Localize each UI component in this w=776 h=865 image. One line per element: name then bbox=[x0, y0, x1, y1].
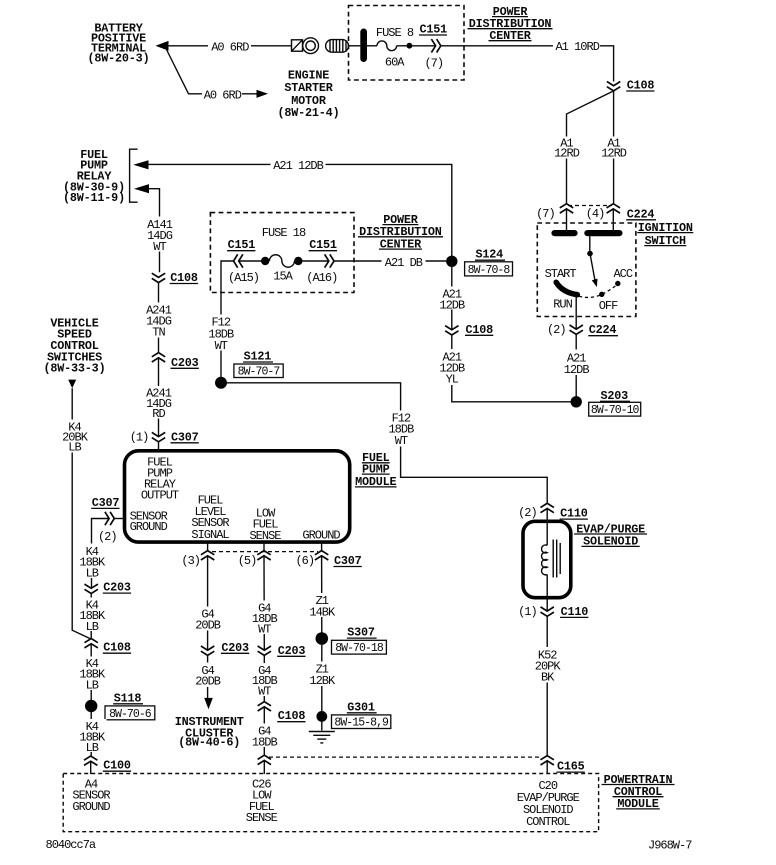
ground G301 reference box 8W-15-8,9 bbox=[332, 715, 391, 730]
connector C100 chevron bbox=[84, 756, 97, 765]
splice S121 label bbox=[243, 350, 273, 364]
wire coil to C110 cavity 1 bbox=[546, 575, 548, 612]
svg-text:12RD: 12RD bbox=[554, 147, 580, 161]
connector C224 label (cavity 2) bbox=[588, 323, 618, 337]
splice S121 dot bbox=[215, 377, 227, 389]
wire A0 6RD to starter motor bbox=[168, 45, 292, 47]
wire label G4 18DB bbox=[250, 724, 280, 748]
wire label K4 18BK LB (3) bbox=[78, 657, 107, 691]
wire label A0 6RD (lower) bbox=[202, 88, 242, 101]
ignition wiper arm with arrowhead bbox=[590, 254, 598, 288]
node FUEL PUMP RELAY label bbox=[63, 148, 125, 205]
svg-text:(7): (7) bbox=[536, 207, 555, 221]
pin C26 LOW FUEL SENSE label bbox=[246, 777, 278, 825]
svg-text:(4): (4) bbox=[586, 207, 605, 221]
svg-text:(A15): (A15) bbox=[228, 271, 259, 285]
svg-text:J968W-7: J968W-7 bbox=[648, 839, 692, 853]
wire label A1 12RD (right) bbox=[599, 137, 628, 159]
connector C307 label (bottom row) bbox=[334, 554, 362, 568]
connector C108 chevron (right column) bbox=[445, 326, 458, 335]
wire A21 12DB from S124 to fuel pump relay bbox=[148, 164, 452, 256]
connector C108 label (right column) bbox=[465, 323, 493, 337]
pin C20 EVAP/PURGE SOLENOID CONTROL label bbox=[517, 779, 580, 829]
fuse 18 element bbox=[269, 255, 294, 268]
svg-text:A21 12DB: A21 12DB bbox=[273, 159, 323, 173]
wire label F12 18DB WT (right) bbox=[386, 411, 417, 447]
wire label K4 18BK LB (2) bbox=[78, 598, 107, 632]
node EVAP/PURGE SOLENOID label bbox=[574, 522, 647, 548]
wire A241 14DG RD bbox=[158, 358, 160, 437]
connector C224 cavity 2 chevron bbox=[570, 325, 583, 334]
connector C307 cavity 5 chevron bbox=[257, 551, 270, 560]
svg-text:(8W-20-3): (8W-20-3) bbox=[88, 51, 150, 65]
svg-text:12DB: 12DB bbox=[439, 298, 465, 312]
wire G4 18DB WT lower bbox=[263, 655, 265, 701]
svg-text:(7): (7) bbox=[424, 56, 443, 70]
wire C224-4 to run contact bbox=[612, 209, 614, 231]
ignition OFF contact dot bbox=[599, 292, 604, 297]
wire G4 18DB to PCM bbox=[263, 707, 265, 755]
svg-text:8W-70-10: 8W-70-10 bbox=[591, 404, 640, 417]
connector C165 label bbox=[557, 760, 585, 774]
wire A1 12RD right branch bbox=[613, 91, 615, 204]
splice S203 dot bbox=[571, 396, 582, 407]
connector C203 label (instrument cluster) bbox=[221, 641, 249, 655]
wire C224-7 to start contact bbox=[566, 209, 568, 231]
svg-text:LB: LB bbox=[68, 440, 81, 454]
pin SENSOR GROUND label bbox=[130, 510, 168, 534]
wire label A21 12DB bbox=[437, 287, 468, 310]
connector C151 label (A16) bbox=[309, 238, 337, 252]
wire low fuel sense stub bbox=[263, 542, 265, 551]
wire contact bar to pivot bbox=[589, 236, 591, 253]
svg-text:12RD: 12RD bbox=[601, 147, 627, 161]
fuse 18 left terminal dot bbox=[261, 257, 269, 265]
wire label A241 14DG RD bbox=[143, 386, 174, 419]
wire G4 20DB upper bbox=[207, 556, 209, 650]
wire fuse 18 to A16 chevron bbox=[303, 260, 329, 262]
wire A141 14DG WT bbox=[148, 189, 160, 273]
svg-text:18DB: 18DB bbox=[252, 735, 278, 749]
svg-text:(8W-11-9): (8W-11-9) bbox=[63, 191, 125, 205]
splice S307 label bbox=[347, 626, 377, 640]
wire G4 20DB lower with arrow bbox=[207, 655, 209, 698]
svg-text:OFF: OFF bbox=[599, 299, 618, 313]
wire F12 18DB WT label (above S121) bbox=[206, 315, 237, 351]
vehicle speed control arrow bbox=[68, 380, 76, 389]
connector C307 cavity 2 chevron bbox=[105, 512, 114, 525]
svg-text:(8W-33-3): (8W-33-3) bbox=[44, 362, 106, 376]
svg-text:(5): (5) bbox=[238, 554, 257, 568]
wire RUN output to C224-2 bbox=[575, 295, 577, 329]
connector C203 chevron (instrument cluster) bbox=[201, 646, 214, 655]
wire sensor ground corner down bbox=[92, 519, 110, 589]
svg-text:GROUND: GROUND bbox=[130, 520, 168, 534]
svg-text:(6): (6) bbox=[295, 554, 314, 568]
node IGNITION SWITCH label bbox=[637, 221, 693, 248]
svg-text:20DB: 20DB bbox=[195, 618, 221, 632]
wire K4 18BK LB to S118 and C100 bbox=[90, 644, 92, 756]
connector C110 cavity 1 chevron bbox=[541, 607, 554, 616]
svg-text:20DB: 20DB bbox=[195, 675, 221, 689]
connector C203 chevron (left column) bbox=[152, 353, 165, 362]
splice S124 dot bbox=[446, 256, 457, 267]
ground G301 label bbox=[347, 700, 377, 714]
fuel pump module box bbox=[125, 451, 350, 542]
svg-text:8W-70-8: 8W-70-8 bbox=[468, 264, 511, 277]
power distribution center box (top) bbox=[349, 6, 465, 81]
node ENGINE STARTER MOTOR label bbox=[278, 68, 340, 119]
wire label A21 DB bbox=[382, 255, 426, 268]
wire label K4 20BK LB bbox=[58, 420, 87, 453]
wire fuel level sensor signal stub bbox=[207, 542, 209, 551]
solenoid core lines bbox=[553, 540, 560, 578]
starter cable coil bbox=[326, 40, 349, 53]
node FUEL PUMP MODULE label bbox=[355, 451, 397, 489]
wire A21 12DB from S124 to C108 bbox=[451, 261, 453, 330]
svg-text:12BK: 12BK bbox=[309, 674, 336, 688]
wire bar to fuse 8 bbox=[367, 45, 377, 47]
node POWER DISTRIBUTION CENTER label (top) bbox=[468, 5, 553, 43]
wire Z1 14BK bbox=[321, 556, 323, 639]
wire diagonal to starter feed bbox=[167, 50, 258, 94]
wire label A21 12DB bbox=[271, 158, 326, 172]
svg-text:WT: WT bbox=[258, 622, 271, 636]
connector C110 cavity 2 chevron bbox=[541, 503, 554, 512]
wire label A21 12DB bbox=[561, 350, 592, 376]
wire K52 20PK BK bbox=[546, 616, 548, 755]
wire A241 14DG TN bbox=[158, 283, 160, 353]
svg-text:8040cc7a: 8040cc7a bbox=[46, 838, 96, 852]
wire into fuel pump module bbox=[158, 442, 160, 453]
connector C307 cavity 3 chevron bbox=[201, 551, 214, 560]
wire label Z1 12BK bbox=[307, 662, 337, 687]
solenoid coil bbox=[542, 545, 548, 575]
svg-text:LB: LB bbox=[86, 566, 99, 580]
node BATTERY POSITIVE TERMINAL label bbox=[88, 22, 150, 66]
svg-text:TN: TN bbox=[152, 326, 165, 340]
wire chevron to fuse 18 bbox=[239, 260, 266, 262]
wire label A21 12DB YL bbox=[437, 349, 468, 385]
wire label G4 18DB WT bbox=[250, 601, 280, 635]
connector C26 chevron into PCM bbox=[258, 755, 271, 764]
connector C110 label (cavity 2) bbox=[560, 507, 588, 521]
connector C108 chevron (column 5) bbox=[258, 702, 271, 711]
svg-text:A21 DB: A21 DB bbox=[385, 256, 423, 270]
svg-text:FUSE 8: FUSE 8 bbox=[376, 26, 414, 40]
ignition start contact bar bbox=[551, 230, 577, 236]
pin LOW FUEL SENSE label bbox=[249, 506, 281, 543]
connector C151 cavity 7 chevron bbox=[431, 39, 440, 52]
svg-text:(3): (3) bbox=[181, 554, 200, 568]
svg-text:LB: LB bbox=[86, 620, 99, 634]
wire into PCM box bbox=[263, 760, 265, 774]
wire A21 12DB to splice S203 bbox=[575, 334, 577, 401]
connector C307 label (cavity 2) bbox=[91, 496, 119, 510]
svg-text:8W-70-7: 8W-70-7 bbox=[238, 366, 280, 379]
node INSTRUMENT CLUSTER label bbox=[175, 715, 244, 749]
ignition ACC contact dot bbox=[615, 281, 620, 286]
splice S118 dot bbox=[85, 700, 97, 712]
wire Z1 12BK bbox=[321, 639, 323, 717]
svg-text:(8W-40-6): (8W-40-6) bbox=[178, 735, 240, 749]
junction dot fuse 8 output bbox=[407, 43, 413, 49]
fuse 8 element bbox=[377, 41, 397, 51]
power distribution center box (fuse 18) bbox=[210, 213, 354, 293]
ground symbol bbox=[309, 732, 335, 743]
splice S118 reference box 8W-70-6 bbox=[105, 706, 155, 721]
ignition detent dashed arc bbox=[579, 285, 616, 297]
svg-text:14BK: 14BK bbox=[309, 605, 336, 619]
battery terminal arrow bbox=[156, 41, 169, 51]
ignition run contact bar bbox=[584, 230, 622, 236]
svg-text:SENSE: SENSE bbox=[249, 529, 281, 543]
connector C307 label (cavity 1) bbox=[171, 430, 199, 444]
wire label G4 20DB bbox=[194, 607, 223, 631]
node POWER DISTRIBUTION CENTER label (fuse 18) bbox=[358, 213, 443, 252]
connector C151 label (A15) bbox=[227, 238, 255, 252]
connector C203 label (column 5) bbox=[277, 644, 305, 658]
wire C100 into PCM bbox=[90, 761, 92, 774]
svg-text:8W-70-18: 8W-70-18 bbox=[335, 642, 384, 655]
wire K4 18BK LB (C203 to C108) bbox=[90, 594, 92, 639]
connector C151 cavity A16 chevron bbox=[325, 254, 334, 267]
svg-text:15A: 15A bbox=[273, 269, 293, 283]
fuse 18 right terminal dot bbox=[294, 257, 302, 265]
splice S124 label bbox=[475, 248, 505, 262]
ignition pivot dot bbox=[587, 251, 593, 257]
svg-text:CONTROL: CONTROL bbox=[526, 815, 570, 829]
arrow to instrument cluster bbox=[204, 698, 213, 709]
svg-text:WT: WT bbox=[395, 434, 408, 448]
wire A1 10RD from C151 to C108 bbox=[441, 46, 614, 82]
splice S124 reference box 8W-70-8 bbox=[465, 262, 513, 277]
svg-text:SIGNAL: SIGNAL bbox=[191, 528, 229, 542]
wire into solenoid bbox=[546, 509, 548, 546]
svg-text:8W-15-8,9: 8W-15-8,9 bbox=[334, 717, 389, 730]
svg-text:GROUND: GROUND bbox=[72, 800, 110, 814]
svg-text:BK: BK bbox=[541, 671, 555, 685]
connector C165 chevron bbox=[541, 756, 554, 765]
connector C108 label (left column) bbox=[170, 271, 198, 285]
svg-text:SENSE: SENSE bbox=[246, 811, 278, 825]
wire label A241 14DG TN bbox=[143, 303, 174, 338]
connector C224 label bbox=[626, 207, 656, 221]
wire label K4 18BK LB (4) bbox=[78, 719, 107, 752]
svg-text:(2): (2) bbox=[98, 530, 117, 544]
svg-text:OUTPUT: OUTPUT bbox=[141, 489, 179, 503]
wire label Z1 14BK bbox=[307, 593, 337, 617]
svg-text:60A: 60A bbox=[385, 55, 405, 69]
wire sensor ground from module bbox=[114, 518, 124, 520]
node VEHICLE SPEED CONTROL SWITCHES label bbox=[44, 316, 106, 375]
svg-text:(2): (2) bbox=[547, 323, 566, 337]
svg-text:LB: LB bbox=[86, 678, 99, 692]
wire ground stub bbox=[321, 542, 323, 551]
connector C151 cavity A15 chevron bbox=[234, 254, 243, 267]
wire label G4 18DB WT (2) bbox=[250, 663, 280, 696]
pin A4 SENSOR GROUND label bbox=[72, 777, 110, 814]
connector C151 label (fuse 8) bbox=[419, 23, 447, 37]
connector C108 chevron (left column) bbox=[152, 273, 165, 282]
splice S203 label bbox=[600, 389, 630, 403]
wire K4 20BK LB long run bbox=[72, 388, 90, 638]
powertrain control module box bbox=[63, 774, 598, 832]
wire G4 18DB WT upper bbox=[263, 556, 265, 650]
wire A1 12RD left branch bbox=[567, 91, 614, 204]
wire label A0 6RD bbox=[208, 39, 251, 52]
svg-text:WT: WT bbox=[153, 240, 166, 254]
connector C100 label bbox=[103, 759, 131, 773]
pin FUEL LEVEL SENSOR SIGNAL label bbox=[191, 494, 229, 542]
connector C203 label (left column) bbox=[171, 356, 199, 370]
wire label K4 18BK LB (1) bbox=[78, 544, 107, 579]
connector C108 label (K4) bbox=[103, 641, 131, 655]
connector C307 dashed tie line bbox=[212, 551, 318, 553]
svg-text:(8W-21-4): (8W-21-4) bbox=[278, 106, 340, 120]
svg-text:A1 10RD: A1 10RD bbox=[555, 40, 599, 54]
svg-text:(A16): (A16) bbox=[306, 271, 337, 285]
fuel pump relay bracket bbox=[130, 149, 138, 202]
connector C203 chevron (column 5) bbox=[258, 646, 271, 655]
svg-text:RUN: RUN bbox=[553, 297, 572, 311]
svg-text:GROUND: GROUND bbox=[302, 528, 340, 542]
svg-text:(2): (2) bbox=[518, 506, 537, 520]
svg-text:FUSE 18: FUSE 18 bbox=[262, 226, 306, 240]
ground G301 dot bbox=[316, 711, 327, 722]
connector C108 chevron (K4) bbox=[85, 639, 98, 648]
svg-text:8W-70-6: 8W-70-6 bbox=[109, 708, 152, 721]
splice S121 reference box 8W-70-7 bbox=[234, 364, 283, 379]
splice S118 label bbox=[113, 691, 143, 705]
ignition rotor thick arc bbox=[556, 282, 577, 294]
wire A21 DB to splice S124 bbox=[334, 260, 446, 262]
splice S203 reference box 8W-70-10 bbox=[589, 402, 641, 417]
ignition switch box bbox=[537, 223, 636, 317]
starter motor terminal circles bbox=[303, 38, 319, 54]
svg-text:A0 6RD: A0 6RD bbox=[204, 88, 242, 102]
svg-text:WT: WT bbox=[215, 339, 228, 353]
connector C307 cavity 6 chevron bbox=[315, 551, 328, 560]
wire label G4 20DB (2) bbox=[194, 663, 223, 688]
connector C203 label (K4) bbox=[103, 581, 131, 595]
wire fuse 8 to connector bbox=[397, 45, 435, 47]
connector C224 cavity 4 chevron bbox=[607, 204, 620, 213]
wire A21 12DB YL to S203 bbox=[452, 335, 571, 402]
node POWERTRAIN CONTROL MODULE label bbox=[602, 773, 675, 811]
wire pill to bus bar bbox=[349, 45, 361, 47]
svg-text:START: START bbox=[545, 267, 577, 281]
splice S307 reference box 8W-70-18 bbox=[332, 640, 387, 655]
wire C165 into PCM bbox=[546, 761, 548, 774]
connector C203 chevron (K4) bbox=[85, 584, 98, 593]
wire label A1 12RD (left) bbox=[552, 137, 581, 159]
wire F12 feed corner into fuse 18 bbox=[221, 261, 234, 377]
connector C165 dashed tie line bbox=[269, 756, 541, 758]
svg-text:LB: LB bbox=[86, 741, 99, 755]
svg-text:(1): (1) bbox=[130, 430, 149, 444]
splice S307 dot bbox=[316, 632, 329, 645]
svg-text:A0 6RD: A0 6RD bbox=[211, 40, 249, 54]
arrow into fuel pump relay (A21 feed) bbox=[133, 160, 148, 169]
connector C224 dashed tie line bbox=[568, 205, 612, 207]
connector C108 label (column 5) bbox=[277, 709, 305, 723]
connector C110 label (cavity 1) bbox=[560, 605, 588, 619]
wire label K52 20PK BK bbox=[533, 647, 563, 683]
wire to ground symbol bbox=[321, 716, 323, 730]
connector C108 chevron (top) bbox=[607, 82, 620, 91]
arrow into fuel pump relay (A141 output) bbox=[134, 184, 149, 193]
svg-text:WT: WT bbox=[258, 684, 271, 698]
svg-text:RD: RD bbox=[152, 407, 165, 421]
arrow to engine starter motor bbox=[257, 90, 269, 98]
battery symbol square bbox=[292, 40, 303, 51]
connector C224 cavity 7 chevron bbox=[560, 204, 573, 213]
svg-text:ACC: ACC bbox=[613, 267, 632, 281]
wire F12 18DB WT from S121 to solenoid bbox=[221, 383, 547, 504]
connector C307 cavity 1 chevron bbox=[152, 432, 165, 441]
svg-text:12DB: 12DB bbox=[564, 363, 590, 377]
fusible link bus bar bbox=[360, 29, 367, 63]
evap/purge solenoid box bbox=[523, 521, 571, 597]
wire label A1 10RD bbox=[553, 40, 600, 53]
connector C108 label (top) bbox=[626, 79, 654, 93]
svg-text:(1): (1) bbox=[518, 605, 537, 619]
pin FUEL PUMP RELAY OUTPUT label bbox=[141, 456, 179, 503]
wire label A141 14DG WT bbox=[144, 217, 175, 252]
svg-text:YL: YL bbox=[446, 373, 459, 387]
